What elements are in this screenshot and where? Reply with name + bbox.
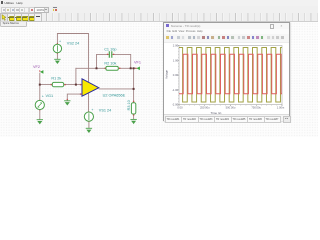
wire noninv input to ground bbox=[67, 94, 82, 100]
sheet tab bbox=[0, 21, 27, 28]
svg-text:VG1: VG1 bbox=[46, 94, 54, 98]
cursor button bbox=[0, 13, 8, 22]
ground below VG1 bbox=[37, 120, 43, 125]
plot frame bbox=[179, 46, 282, 105]
svg-text:250.00u: 250.00u bbox=[200, 106, 210, 110]
menu bar bbox=[164, 29, 289, 35]
generator VG1 bbox=[35, 94, 53, 109]
wire VS1 to ground bbox=[88, 121, 90, 127]
toolbar 2 (component bar) bbox=[0, 13, 318, 22]
node output wire junction bbox=[133, 88, 135, 90]
toolbar bbox=[164, 34, 289, 43]
svg-text:VS2 24: VS2 24 bbox=[67, 42, 79, 46]
yellow component buttons bbox=[7, 13, 15, 22]
ground below VS2 bbox=[54, 59, 60, 64]
wire VF2/VG1 node vertical bbox=[39, 73, 41, 100]
resistor R2 bbox=[104, 62, 118, 71]
voltage source VS1 bbox=[84, 108, 111, 121]
capacitor C1 bbox=[104, 48, 116, 58]
pin end markers (red terminal ticks) bbox=[39, 43, 134, 122]
node feedback left junction bbox=[96, 67, 98, 69]
colored grid icon bbox=[52, 6, 57, 11]
op-amp U2 bbox=[82, 79, 126, 98]
wire VS2 plus to opamp V+ bbox=[57, 34, 88, 83]
node inverting input junction bbox=[75, 84, 77, 86]
resistor R3 bbox=[127, 100, 136, 114]
junction node dots bbox=[39, 67, 135, 90]
wire VS2 minus to ground bbox=[56, 53, 58, 59]
wire R3 to ground bbox=[133, 114, 135, 119]
axis labels Y bbox=[172, 44, 179, 107]
waveforms bbox=[179, 48, 282, 103]
wire VF1 stub bbox=[134, 67, 137, 69]
svg-text:R1 2k: R1 2k bbox=[51, 77, 61, 81]
svg-text:+: + bbox=[42, 94, 44, 98]
wire feedback main bbox=[76, 67, 134, 69]
svg-text:+: + bbox=[91, 108, 93, 112]
wire output node vertical to R3 bbox=[133, 68, 135, 103]
svg-text:R2 10k: R2 10k bbox=[104, 62, 116, 66]
axis labels X bbox=[177, 106, 285, 110]
svg-text:500.00u: 500.00u bbox=[226, 106, 236, 110]
svg-text:Voltage: Voltage bbox=[164, 70, 168, 79]
svg-text:+: + bbox=[59, 39, 61, 43]
wire tool button bbox=[34, 13, 42, 22]
zoom combo bbox=[34, 7, 48, 14]
probe VF1 bbox=[134, 61, 141, 71]
wire output bbox=[99, 88, 133, 90]
wire cap branch bbox=[97, 54, 131, 68]
svg-text:VS1 24: VS1 24 bbox=[99, 109, 111, 113]
svg-text:R3 10: R3 10 bbox=[127, 100, 131, 110]
wire VG1 to ground bbox=[39, 110, 41, 120]
ground below R3 bbox=[130, 119, 136, 124]
svg-text:0.00: 0.00 bbox=[177, 106, 183, 110]
voltage source VS2 bbox=[53, 39, 79, 52]
zoom button with red glyph bbox=[29, 7, 35, 14]
toolbar 1 bbox=[0, 6, 318, 14]
svg-text:U2 OPA656E: U2 OPA656E bbox=[103, 93, 126, 97]
title bar bbox=[164, 23, 289, 30]
ticks bbox=[178, 46, 283, 107]
resistor R1 bbox=[51, 77, 63, 87]
node feedback right junction bbox=[130, 67, 132, 69]
node output top junction bbox=[133, 67, 135, 69]
ground at noninv input bbox=[64, 101, 70, 106]
node VG1/R1 junction bbox=[39, 84, 41, 86]
svg-text:VF1: VF1 bbox=[134, 61, 141, 65]
wire R1 input line bbox=[40, 84, 82, 86]
wire opamp V- to VS1 bbox=[88, 94, 90, 112]
DIAGRAM WINDOW bbox=[163, 22, 290, 121]
svg-text:VF2: VF2 bbox=[33, 65, 40, 69]
wire feedback riser bbox=[75, 68, 77, 84]
plot bbox=[164, 23, 289, 120]
svg-text:C1 10p: C1 10p bbox=[104, 48, 116, 52]
menu bar bbox=[0, 0, 318, 7]
minor ticks bbox=[178, 46, 282, 106]
tabs row bbox=[164, 114, 289, 121]
canvas background with grid bbox=[0, 20, 318, 137]
probe VF2 bbox=[33, 65, 43, 74]
ground below VS1 bbox=[86, 128, 92, 133]
svg-text:1.00m: 1.00m bbox=[277, 106, 285, 110]
